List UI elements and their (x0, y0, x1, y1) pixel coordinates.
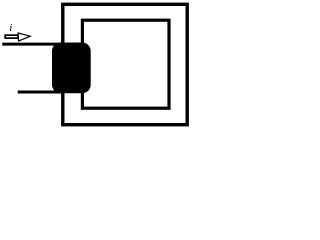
wire: top lead (2, 43, 64, 46)
svg-text:i: i (9, 22, 12, 34)
current arrow head (18, 33, 30, 41)
core outer rectangle (63, 4, 187, 124)
core inner rectangle (82, 20, 169, 108)
wire: bottom lead (18, 91, 64, 94)
coil winding (black blob) on left limb (52, 43, 91, 94)
current arrow shaft (5, 35, 18, 38)
